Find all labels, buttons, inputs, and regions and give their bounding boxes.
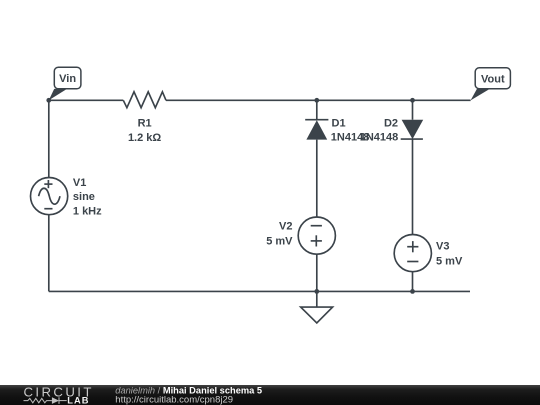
- diode D2: [401, 120, 424, 139]
- wire top rail R1 to node D1: [166, 99, 317, 101]
- svg-text:sine: sine: [73, 191, 95, 203]
- svg-text:1N4148: 1N4148: [360, 132, 399, 144]
- wire top rail node D2 to Vout: [413, 99, 471, 101]
- svg-text:Vout: Vout: [481, 73, 505, 85]
- svg-text:V2: V2: [279, 221, 292, 233]
- wire node to D1 cathode: [316, 100, 318, 119]
- label V3 value: [436, 241, 463, 268]
- svg-text:1 kHz: 1 kHz: [73, 206, 102, 218]
- label V1 value: [73, 177, 102, 218]
- wire V2 bottom to bottom rail: [316, 254, 318, 291]
- wire D2 cathode to V3 top: [412, 139, 414, 234]
- footer bar: [0, 385, 540, 405]
- node Vin: [46, 98, 51, 103]
- diode D1: [305, 120, 328, 140]
- svg-text:D1: D1: [332, 118, 346, 130]
- label D2: [360, 118, 399, 144]
- wire top rail node D1 to node D2: [317, 99, 413, 101]
- voltage source V1: [30, 178, 67, 215]
- svg-text:V1: V1: [73, 177, 86, 189]
- node bottom V3: [410, 289, 415, 294]
- node top D1: [314, 98, 319, 103]
- logo diode arrow: [52, 397, 59, 404]
- label D1: [331, 118, 370, 144]
- svg-text:5 mV: 5 mV: [436, 256, 463, 268]
- svg-text:V3: V3: [436, 241, 449, 253]
- svg-text:LAB: LAB: [67, 396, 89, 405]
- node top D2: [410, 98, 415, 103]
- label Vin callout: [49, 67, 81, 100]
- svg-text:http://circuitlab.com/cpn8j29: http://circuitlab.com/cpn8j29: [115, 395, 233, 405]
- wire D1 anode to V2 top: [316, 140, 318, 217]
- wire V1 bottom to bottom rail: [48, 215, 50, 292]
- logo waveform: [24, 397, 67, 404]
- label Vout callout: [471, 68, 511, 101]
- ground: [301, 291, 333, 323]
- resistor R1: [123, 92, 166, 108]
- wire top rail Vin to R1: [49, 99, 124, 101]
- wire bottom rail: [49, 290, 470, 292]
- svg-text:R1: R1: [138, 118, 152, 130]
- wire Vin node to V1 top: [48, 100, 50, 177]
- wire V3 bottom to bottom rail: [412, 272, 414, 292]
- svg-text:Vin: Vin: [59, 73, 76, 85]
- svg-text:D2: D2: [384, 118, 398, 130]
- voltage source V2: [298, 217, 335, 254]
- svg-text:1.2 kΩ: 1.2 kΩ: [128, 132, 161, 144]
- wire node to D2 anode: [412, 100, 414, 119]
- voltage source V3: [394, 235, 431, 272]
- node bottom V2: [314, 289, 319, 294]
- svg-text:5 mV: 5 mV: [266, 236, 293, 248]
- label V2 value: [266, 221, 293, 248]
- label R1 value: [128, 118, 161, 144]
